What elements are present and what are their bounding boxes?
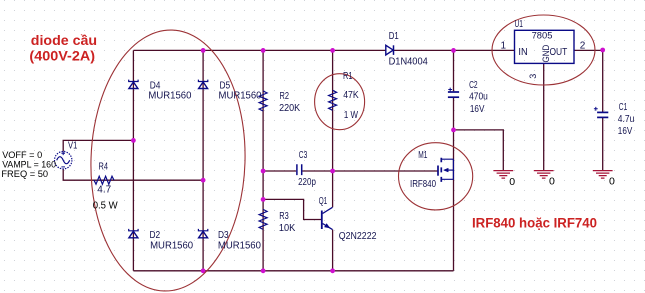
capacitor C2 <box>448 88 459 98</box>
regulator U1 box <box>515 30 575 63</box>
svg-text:IRF840: IRF840 <box>410 179 436 190</box>
svg-text:3: 3 <box>528 74 538 79</box>
resistor R3 <box>259 209 267 229</box>
svg-text:10K: 10K <box>279 223 296 234</box>
label ground 0 nodes <box>509 176 615 189</box>
svg-text:U1: U1 <box>515 19 524 30</box>
red annotation ellipse R1 <box>315 74 365 130</box>
label C3 <box>298 150 316 188</box>
red annotation ellipse U1 <box>492 15 595 85</box>
svg-text:R1: R1 <box>343 71 353 82</box>
svg-text:0.5 W: 0.5 W <box>93 201 119 212</box>
svg-text:MUR1560: MUR1560 <box>148 91 191 102</box>
wire bridge left column D4 D2 <box>132 50 134 270</box>
label C1 <box>618 102 635 137</box>
svg-text:VOFF = 0: VOFF = 0 <box>2 150 42 160</box>
svg-text:0: 0 <box>549 176 555 188</box>
svg-text:D2: D2 <box>150 230 161 241</box>
diode D1 <box>386 45 394 55</box>
wire V1 bottom and R4 row <box>63 169 203 180</box>
red annotation ellipse bridge <box>87 28 249 293</box>
svg-text:R4: R4 <box>99 162 109 173</box>
svg-text:IN: IN <box>518 47 527 58</box>
svg-text:OUT: OUT <box>550 47 568 58</box>
capacitor C3 <box>297 164 302 175</box>
label D3 <box>218 230 261 251</box>
transistor Q1 <box>322 207 333 229</box>
resistor R4 <box>94 176 114 184</box>
svg-text:C1: C1 <box>619 102 628 113</box>
label Q1 <box>319 196 377 242</box>
label D4 <box>148 81 191 102</box>
label D5 <box>219 81 262 102</box>
wire R2 R3 column <box>262 50 264 270</box>
label M1 <box>410 150 436 190</box>
svg-text:2: 2 <box>580 41 586 52</box>
wire Q1 base jog <box>263 199 321 219</box>
svg-text:4.7: 4.7 <box>97 185 111 196</box>
svg-text:MUR1560: MUR1560 <box>218 240 261 251</box>
wire top rail <box>133 49 514 51</box>
red note diode cau <box>29 33 97 64</box>
wire C2 M1 column <box>453 50 455 270</box>
svg-text:7805: 7805 <box>532 31 553 42</box>
wire R1 column <box>332 50 334 171</box>
svg-text:Q1: Q1 <box>319 196 328 207</box>
ground 3 <box>593 171 613 179</box>
svg-text:220p: 220p <box>298 177 316 188</box>
svg-text:V1: V1 <box>68 141 78 152</box>
svg-text:FREQ = 50: FREQ = 50 <box>1 169 48 179</box>
svg-text:C3: C3 <box>299 150 308 161</box>
label C2 <box>469 80 488 115</box>
wire Q1 collector <box>332 171 334 207</box>
svg-text:0: 0 <box>509 176 515 188</box>
svg-text:220K: 220K <box>279 103 300 114</box>
wire bottom rail <box>133 270 453 272</box>
label D2 <box>150 230 194 251</box>
wire V1 top <box>63 140 133 151</box>
svg-text:Q2N2222: Q2N2222 <box>339 231 377 242</box>
svg-text:4.7u: 4.7u <box>618 114 635 125</box>
svg-text:MUR1560: MUR1560 <box>219 91 262 102</box>
capacitor C1 <box>594 107 608 118</box>
svg-text:C2: C2 <box>469 80 478 91</box>
ground 2 <box>534 171 554 179</box>
wire gate line <box>263 170 438 172</box>
svg-text:(400V-2A): (400V-2A) <box>29 49 95 64</box>
ground 1 <box>493 171 513 179</box>
svg-text:IRF840 hoặc IRF740: IRF840 hoặc IRF740 <box>472 216 597 231</box>
red annotation circle M1 <box>399 143 473 210</box>
diode D4 <box>129 80 138 89</box>
svg-text:0: 0 <box>609 176 615 188</box>
diode D3 <box>198 229 207 238</box>
svg-text:GND: GND <box>541 44 551 62</box>
svg-text:MUR1560: MUR1560 <box>150 240 193 251</box>
source V1 <box>55 152 72 169</box>
svg-text:D1: D1 <box>389 31 399 42</box>
wire bridge right column D5 D3 <box>202 50 204 270</box>
wire Q1 emitter <box>332 230 334 271</box>
svg-text:16V: 16V <box>618 126 633 137</box>
svg-text:R2: R2 <box>280 91 290 102</box>
wire U1 out to C1 <box>574 50 603 170</box>
svg-text:16V: 16V <box>470 104 485 115</box>
svg-text:47K: 47K <box>343 90 359 101</box>
svg-text:M1: M1 <box>418 150 427 161</box>
label R4 <box>97 162 111 196</box>
wire U1 gnd pin <box>543 63 545 170</box>
svg-text:470u: 470u <box>469 92 488 103</box>
mosfet M1 <box>438 158 454 182</box>
svg-text:D3: D3 <box>218 230 229 241</box>
resistor R1 <box>329 90 337 110</box>
svg-text:1 W: 1 W <box>344 110 359 121</box>
resistor R2 <box>259 91 267 111</box>
label R2 <box>279 91 300 114</box>
node junction dots <box>131 48 605 274</box>
svg-text:R3: R3 <box>279 211 289 222</box>
diode D2 <box>129 229 138 238</box>
label R3 <box>279 211 296 234</box>
label V1 params <box>1 150 56 179</box>
svg-text:diode cầu: diode cầu <box>31 33 97 48</box>
svg-text:D1N4004: D1N4004 <box>389 57 429 68</box>
label R1 <box>343 71 359 121</box>
svg-text:1: 1 <box>501 41 507 52</box>
wire C2 to ground1 <box>454 130 504 170</box>
svg-text:VAMPL = 160: VAMPL = 160 <box>2 160 56 170</box>
label U1 <box>501 19 586 79</box>
diode D5 <box>198 80 207 89</box>
label D1 <box>389 31 429 68</box>
